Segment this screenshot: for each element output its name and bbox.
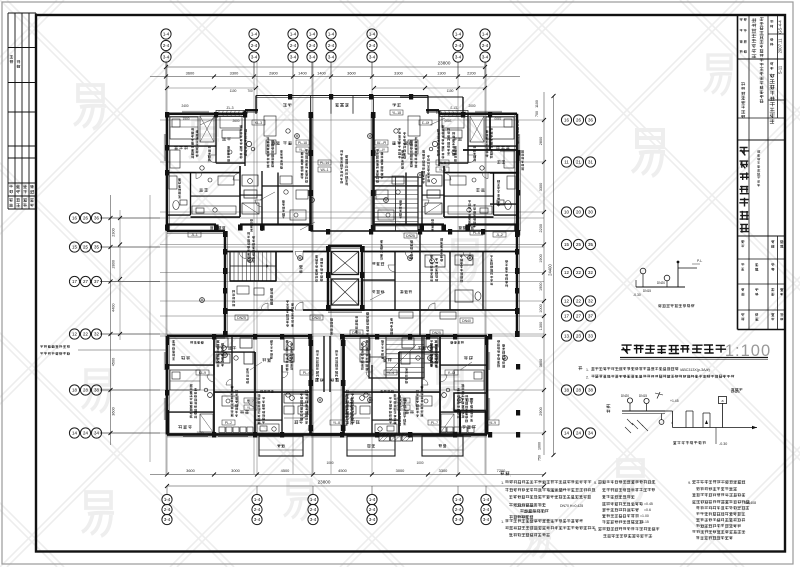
svg-text:2900: 2900 [539,407,543,415]
svg-text:21: 21 [576,160,581,165]
svg-text:10: 10 [564,210,569,215]
top dimension lines [166,66,485,68]
svg-text:KL-3: KL-3 [255,121,262,125]
svg-text:23800: 23800 [438,61,451,66]
svg-text:36: 36 [588,118,593,123]
svg-text:4500: 4500 [338,468,347,473]
svg-text:2800: 2800 [269,71,278,76]
pipe axonometric [606,404,610,408]
svg-text:3000: 3000 [231,468,240,473]
svg-text:97S30-47: 97S30-47 [548,489,563,493]
svg-text:35: 35 [94,245,99,250]
svg-text:+1.45: +1.45 [670,399,679,403]
svg-text:PL-7: PL-7 [431,421,438,425]
svg-text:1400: 1400 [317,71,326,76]
svg-text:DN25: DN25 [237,316,246,320]
svg-text:25: 25 [576,242,581,247]
svg-text:24400: 24400 [548,264,553,276]
svg-text:12: 12 [564,270,569,275]
svg-text:3300: 3300 [539,183,543,191]
svg-text:1300: 1300 [437,71,446,76]
svg-text:700: 700 [247,89,253,93]
aux vertical line left of plan [149,195,151,462]
svg-text:DN20: DN20 [352,331,361,335]
svg-text:YL-4: YL-4 [387,371,394,375]
svg-text:22: 22 [83,332,88,337]
svg-text:YL-9: YL-9 [489,421,496,425]
svg-text:9.: 9. [688,481,691,485]
svg-text:1-4: 1-4 [482,32,489,37]
leader labels left [40,346,43,348]
svg-text:DN25: DN25 [432,331,441,335]
svg-text:1900: 1900 [539,254,543,262]
svg-text:PL-2: PL-2 [225,421,232,425]
top grid bubbles [165,62,167,77]
svg-text:1-4: 1-4 [163,32,170,37]
svg-text:1-4: 1-4 [328,32,335,37]
svg-text:/ABC313X(p-3A/#): /ABC313X(p-3A/#) [680,368,710,372]
svg-text:YL-5: YL-5 [439,168,446,172]
svg-text:25: 25 [83,245,88,250]
svg-text:1-4: 1-4 [369,497,376,502]
svg-text:PL-4: PL-4 [303,371,310,375]
svg-text:PL-18: PL-18 [298,141,307,145]
lower stair [369,336,424,378]
door arcs corridor extra [239,252,246,259]
svg-text:2-4: 2-4 [482,43,489,48]
svg-text:2-4: 2-4 [310,507,317,512]
svg-text:S-11: S-11 [778,65,783,74]
svg-text:38: 38 [94,388,99,393]
svg-text:2-4: 2-4 [254,507,261,512]
svg-text:26: 26 [576,118,581,123]
svg-text:1.: 1. [501,481,504,485]
svg-text:2-4: 2-4 [328,43,335,48]
extra circles (risers) [295,134,300,139]
svg-text:1000: 1000 [538,442,542,450]
svg-text:15: 15 [564,242,569,247]
svg-text:2-4: 2-4 [369,507,376,512]
svg-text:11: 11 [564,160,569,165]
svg-text:1.: 1. [586,368,589,372]
bottom-right balcony notch [454,393,487,411]
svg-text:1-4: 1-4 [369,32,376,37]
svg-text:YL-8: YL-8 [333,421,340,425]
svg-text:2-4: 2-4 [163,43,170,48]
svg-text:16: 16 [564,118,569,123]
svg-text:38: 38 [588,388,593,393]
svg-text:1500: 1500 [182,117,189,121]
svg-text:2007.11: 2007.11 [778,38,783,53]
bed + furniture room1 [170,117,198,139]
svg-text:32: 32 [94,332,99,337]
hatched window row [379,433,390,441]
svg-text:2-4: 2-4 [455,43,462,48]
top band left [164,96,344,232]
svg-text:24: 24 [83,431,88,436]
bottom extra density [190,384,193,387]
svg-text:DN20: DN20 [312,316,321,320]
svg-text:ZL-3: ZL-3 [227,106,234,110]
svg-text:27: 27 [83,279,88,284]
svg-text:1-4: 1-4 [483,497,490,502]
svg-text:5.: 5. [594,481,597,485]
grid axis lines [100,62,544,474]
svg-text:1000: 1000 [539,304,543,312]
svg-text:2800: 2800 [539,137,543,145]
svg-text:3-4: 3-4 [455,55,462,60]
small leader lines [200,118,215,125]
svg-text:3-4: 3-4 [164,517,171,522]
title block [738,15,786,330]
svg-text:36: 36 [94,216,99,221]
svg-text:PL-14: PL-14 [320,161,329,165]
svg-text:DN15: DN15 [643,289,651,293]
svg-text:3000: 3000 [396,468,405,473]
svg-text:23800: 23800 [318,480,331,485]
svg-text:24: 24 [576,431,581,436]
bottom band right (mirror) [311,336,490,437]
svg-text:a: a [722,399,724,403]
extra partitions [277,173,279,225]
svg-text:PL-6: PL-6 [473,231,480,235]
extra pipe tag stacks [247,232,250,235]
svg-text:2-4: 2-4 [309,43,316,48]
svg-text:3600: 3600 [112,407,116,415]
bottom interior [213,336,215,435]
svg-text:=1.15: =1.15 [640,520,649,524]
svg-text:3-4: 3-4 [328,55,335,60]
top band right (mirror) [340,96,520,232]
svg-text:1100: 1100 [447,89,454,93]
svg-text:DN70 H=0.425: DN70 H=0.425 [560,504,583,508]
svg-text:1400: 1400 [298,71,307,76]
svg-text:12: 12 [72,332,77,337]
svg-text:3-4: 3-4 [310,517,317,522]
pipe tags [191,128,194,131]
bottom inner square row [219,427,225,433]
notes under title [578,366,582,370]
svg-text:1-4: 1-4 [455,32,462,37]
svg-text:=0.45: =0.45 [644,502,653,506]
svg-text:3-4: 3-4 [369,517,376,522]
svg-text:3300: 3300 [394,71,403,76]
left dim line [110,195,112,445]
svg-text:4400: 4400 [112,304,116,312]
svg-text:31: 31 [588,160,593,165]
svg-text:1-4: 1-4 [251,32,258,37]
svg-text:3-4: 3-4 [251,55,258,60]
svg-text:4500: 4500 [112,358,116,366]
svg-text:JL-2: JL-2 [496,233,503,237]
svg-text:30: 30 [588,210,593,215]
svg-text:34: 34 [94,431,99,436]
svg-text:WL-1: WL-1 [320,168,328,172]
svg-text:2000: 2000 [468,104,475,108]
room labels [174,147,178,150]
top band interior [215,114,217,163]
svg-text:DN20 H=0.35: DN20 H=0.35 [516,504,537,508]
svg-text:DN30 H=0.42: DN30 H=0.42 [524,510,545,514]
svg-text:2800: 2800 [112,260,116,268]
svg-text:3-4: 3-4 [369,55,376,60]
extra tag boxes [318,160,331,165]
svg-text:23: 23 [576,334,581,339]
bath fixtures [169,176,177,189]
svg-text:4: 4 [671,421,673,425]
svg-text:3-4: 3-4 [254,517,261,522]
svg-text:DN40: DN40 [462,319,471,323]
svg-text:700: 700 [535,111,539,117]
svg-text:1-4: 1-4 [290,32,297,37]
svg-text:2-4: 2-4 [164,507,171,512]
svg-text:28: 28 [83,388,88,393]
svg-text:2200: 2200 [539,224,543,232]
svg-text:3-4: 3-4 [163,55,170,60]
bottom dimension lines [150,474,544,476]
svg-text:32: 32 [588,299,593,304]
svg-text:2600: 2600 [232,119,239,123]
svg-text:P-L: P-L [697,259,702,263]
bottom band unit [167,335,311,338]
svg-text:DN20: DN20 [621,394,629,398]
svg-text::: : [510,474,511,478]
svg-text:2-4: 2-4 [483,507,490,512]
svg-text:=0.6: =0.6 [644,508,651,512]
svg-text:37: 37 [588,314,593,319]
svg-text:28: 28 [576,388,581,393]
svg-text:2-4: 2-4 [290,43,297,48]
svg-text:H=0.25: H=0.25 [516,515,527,519]
svg-text:3-4: 3-4 [290,55,297,60]
svg-text:1-4: 1-4 [309,32,316,37]
svg-text:18: 18 [72,388,77,393]
svg-text:22: 22 [576,299,581,304]
svg-text:GS-4-4: GS-4-4 [778,20,783,34]
svg-text:32: 32 [588,270,593,275]
svg-text:=1.00: =1.00 [640,514,649,518]
svg-text:3600: 3600 [186,71,195,76]
svg-text:PL-2: PL-2 [247,399,254,403]
svg-text:PL-5: PL-5 [439,161,446,165]
svg-text:1100: 1100 [230,89,237,93]
svg-text:2.: 2. [586,376,589,380]
svg-text:YL-1: YL-1 [299,148,306,152]
svg-text:750: 750 [538,455,542,461]
svg-text:33S408: 33S408 [744,501,756,505]
right dim line [543,92,545,455]
svg-text:JL-1: JL-1 [191,233,198,237]
svg-text:3-4: 3-4 [482,55,489,60]
svg-text:3300: 3300 [439,468,448,473]
secondary dim segments [167,87,256,89]
svg-text:1900: 1900 [539,283,543,291]
svg-text:2200: 2200 [467,71,476,76]
right grid bubbles [561,115,571,125]
main title [621,345,631,354]
svg-text:4500: 4500 [281,468,290,473]
left margin table [8,13,36,209]
upper stair [374,177,418,231]
elevators [327,246,330,310]
svg-text:16: 16 [72,216,77,221]
extra blobs on walls [165,112,169,118]
svg-text:3600: 3600 [539,359,543,367]
svg-text:35: 35 [588,242,593,247]
stair main [230,252,276,282]
svg-text:2400: 2400 [181,104,188,108]
bathroom supply detail [636,286,685,288]
svg-text:1000: 1000 [416,461,423,465]
bottom balconies [259,436,303,456]
top balcony [256,95,342,97]
svg-text:13: 13 [564,334,569,339]
svg-text:15: 15 [72,245,77,250]
svg-text:1300: 1300 [539,322,543,330]
svg-text:1-4: 1-4 [164,497,171,502]
top band unit walls [167,113,245,116]
svg-text:5.: 5. [594,528,597,532]
svg-text:37: 37 [94,279,99,284]
svg-text:DN20: DN20 [657,281,665,285]
svg-text:1100: 1100 [535,100,539,108]
svg-text:3-4: 3-4 [309,55,316,60]
svg-text:2-4: 2-4 [369,43,376,48]
svg-text:27: 27 [576,314,581,319]
svg-text:2-4: 2-4 [251,43,258,48]
svg-text:18: 18 [564,388,569,393]
svg-text:YL-18: YL-18 [392,111,401,115]
svg-text:2300: 2300 [112,228,116,236]
svg-text:20: 20 [576,210,581,215]
svg-text:3-4: 3-4 [483,517,490,522]
svg-text:3600: 3600 [186,468,195,473]
svg-text:33: 33 [588,334,593,339]
svg-text:34: 34 [588,431,593,436]
svg-text:1-4: 1-4 [455,497,462,502]
middle band [167,230,225,233]
bottom grid bubbles [166,486,168,494]
svg-text:-0.30: -0.30 [633,293,641,297]
svg-text:3-4: 3-4 [455,517,462,522]
svg-text:14: 14 [564,431,569,436]
watermark yi glyphs [74,85,106,129]
svg-text:17: 17 [564,314,569,319]
svg-text:26: 26 [83,216,88,221]
svg-text:22: 22 [576,270,581,275]
svg-text:DN25: DN25 [406,234,415,238]
mid band fixtures [425,255,445,267]
svg-text:3600: 3600 [347,71,356,76]
notes block [500,471,504,475]
svg-text:17: 17 [72,279,77,284]
svg-text:1-4: 1-4 [254,497,261,502]
svg-text:YL-3: YL-3 [247,406,254,410]
right wing [489,114,491,150]
svg-text:1-4: 1-4 [310,497,317,502]
svg-text:-0.30: -0.30 [719,442,727,446]
svg-text:14: 14 [72,431,77,436]
svg-text:1000: 1000 [326,461,333,465]
bottom band left [164,336,343,437]
svg-text:3300: 3300 [230,71,239,76]
svg-text:12: 12 [564,299,569,304]
svg-text:DN15: DN15 [639,394,647,398]
svg-text:1.: 1. [501,520,504,524]
left grid bubbles [100,217,160,219]
svg-text:2-4: 2-4 [455,507,462,512]
